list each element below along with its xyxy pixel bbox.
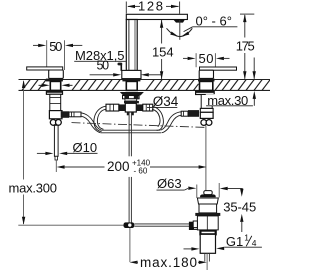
left valve below deck xyxy=(46,91,62,94)
hose stub from T right into loop xyxy=(152,106,163,117)
max30 label w/ bg xyxy=(206,94,256,105)
locknut xyxy=(200,231,215,235)
tailpipe xyxy=(200,234,215,253)
node xyxy=(124,222,135,228)
left deck arrows xyxy=(39,84,43,86)
svg-text:50: 50 xyxy=(49,39,62,54)
spout escutcheon xyxy=(122,70,141,78)
T bottom tabs xyxy=(127,112,129,115)
dim 200 xyxy=(55,160,57,172)
T block xyxy=(125,103,136,112)
svg-text:50: 50 xyxy=(97,58,110,72)
svg-text:max.180: max.180 xyxy=(140,255,197,270)
svg-text:Ø63: Ø63 xyxy=(157,176,182,191)
rod to drain xyxy=(134,223,189,225)
right valve below deck xyxy=(196,91,215,94)
body lower xyxy=(197,216,218,230)
svg-text:4: 4 xyxy=(252,238,257,248)
svg-text:128: 128 xyxy=(138,0,163,14)
hose stub from T left xyxy=(95,106,106,116)
right lever xyxy=(200,67,237,70)
O10 tube xyxy=(54,125,58,156)
spout column xyxy=(126,20,137,71)
svg-text:- 60: - 60 xyxy=(134,167,148,176)
svg-text:max.300: max.300 xyxy=(9,181,58,196)
right joint circles xyxy=(201,120,207,126)
spout shank through deck xyxy=(126,81,137,90)
floor line xyxy=(18,224,124,226)
left lever xyxy=(27,67,63,70)
svg-text:0° - 6°: 0° - 6° xyxy=(196,13,232,28)
dim 50 left xyxy=(47,40,65,70)
spout top bar xyxy=(126,14,187,19)
O10 dim xyxy=(37,152,46,154)
right valve elbow xyxy=(200,108,213,112)
svg-text:200: 200 xyxy=(107,159,130,174)
left shank through deck xyxy=(50,81,60,90)
svg-text:175: 175 xyxy=(236,38,255,53)
spout below deck flange xyxy=(120,92,144,96)
dim 154 xyxy=(161,20,163,44)
side inlet xyxy=(193,221,197,228)
center supply pipe xyxy=(128,112,130,222)
hose centerline dash-dot xyxy=(72,123,206,128)
right side fitting xyxy=(188,110,199,117)
svg-text:35-45: 35-45 xyxy=(223,199,256,214)
svg-text:50: 50 xyxy=(199,51,214,66)
hose from right valve into loop xyxy=(161,112,182,130)
hose from left valve into loop xyxy=(81,106,182,133)
max.180 xyxy=(130,261,138,264)
max30 upper arrow line xyxy=(253,58,255,79)
pull rod xyxy=(118,63,123,66)
rod from right valve to drain xyxy=(205,126,207,195)
dim 50 right xyxy=(196,53,215,67)
flange xyxy=(197,198,218,204)
deck hatched band xyxy=(19,80,271,91)
right shank through deck xyxy=(200,81,213,90)
dim 128 xyxy=(126,2,179,14)
right escutcheon xyxy=(199,70,213,78)
svg-text:154: 154 xyxy=(152,44,174,59)
dim 175 xyxy=(240,13,254,15)
seal band xyxy=(195,213,220,216)
left side fitting xyxy=(61,111,69,118)
body upper xyxy=(199,204,217,213)
plug knob xyxy=(204,191,212,195)
svg-text:Ø34: Ø34 xyxy=(153,94,179,109)
left escutcheon xyxy=(49,70,64,78)
left elbow xyxy=(49,111,62,119)
tilt arc 0-6 xyxy=(167,28,193,36)
hatch lines xyxy=(22,80,270,91)
line below node xyxy=(129,228,131,262)
outlet centerline xyxy=(179,20,181,40)
T side fittings xyxy=(119,104,126,111)
knob cap xyxy=(200,194,216,197)
loop left end xyxy=(94,117,102,132)
loop bottom xyxy=(101,129,161,131)
aerator wedge xyxy=(174,20,185,23)
svg-text:Ø10: Ø10 xyxy=(73,140,98,155)
left joint circles xyxy=(50,120,56,126)
35-45 dim xyxy=(218,183,220,198)
